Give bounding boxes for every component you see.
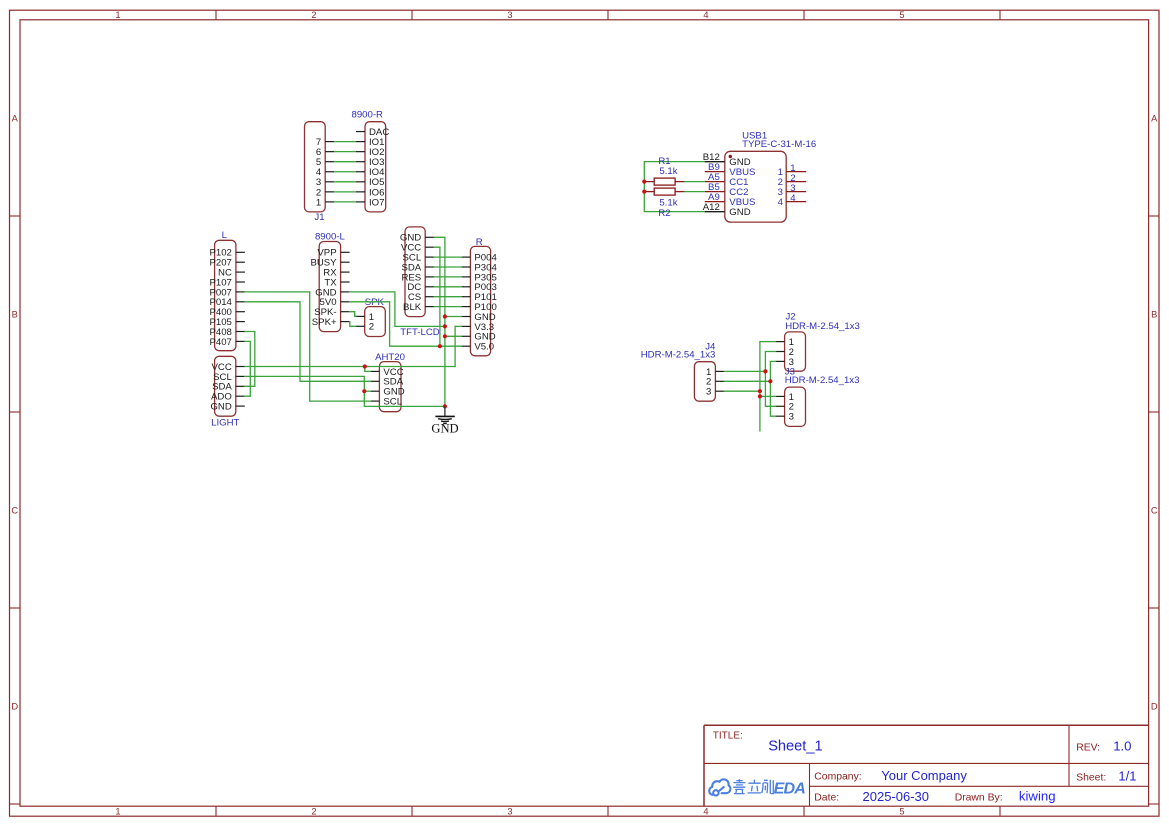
svg-text:Company:: Company: <box>814 772 861 783</box>
connector USB1 TYPE-C-31-M-16 <box>725 151 786 222</box>
wire P014 to AHT20 SDA <box>245 302 371 382</box>
svg-text:D: D <box>1151 701 1158 711</box>
title block outline <box>704 725 1149 806</box>
wire TFT DC to P003 <box>434 286 461 288</box>
svg-text:B: B <box>1151 309 1157 319</box>
junction GND row7 <box>443 314 447 318</box>
wire R GND pin9 <box>445 335 462 337</box>
svg-text:REV:: REV: <box>1076 742 1100 753</box>
wires J1 to 8900-R IO1-IO7 <box>334 142 356 202</box>
logo JLC cloud icon <box>709 779 730 795</box>
wire R2 to CC2 <box>684 191 704 193</box>
junction R2 left <box>642 190 646 194</box>
USB1 pin A12 GND <box>703 202 751 218</box>
svg-text:SPK+: SPK+ <box>312 317 337 328</box>
wire R1 to CC1 <box>684 181 704 183</box>
wire TFT SDA to P304 <box>434 266 461 268</box>
ground GND symbol <box>431 406 458 435</box>
svg-text:LIGHT: LIGHT <box>211 417 239 428</box>
wire AHT20 GND stub join <box>364 390 370 392</box>
svg-text:4: 4 <box>778 197 784 208</box>
svg-text:TYPE-C-31-M-16: TYPE-C-31-M-16 <box>742 139 816 150</box>
wire LIGHT SCL rail down to ground rail <box>245 376 445 406</box>
junction J4.3 on vertical A <box>758 389 762 393</box>
junction J4.1 on vertical B <box>763 369 767 373</box>
wire VCC rail LIGHT VCC to V3.3 vertical <box>245 366 455 368</box>
USB1 pin A5 CC1 <box>705 172 749 188</box>
wire J4 pin3 <box>724 390 760 392</box>
frame row letters right <box>1151 113 1158 711</box>
svg-text:EDA: EDA <box>774 780 806 797</box>
logo text 嘉立创 strokes <box>733 779 773 793</box>
svg-text:2: 2 <box>369 322 374 333</box>
wire SPK+ to SPK pin2 <box>350 322 356 327</box>
svg-text:C: C <box>1151 505 1158 515</box>
svg-text:HDR-M-2.54_1x3: HDR-M-2.54_1x3 <box>785 321 860 332</box>
svg-text:3: 3 <box>706 387 711 398</box>
svg-text:1: 1 <box>115 10 120 20</box>
wire A12 black segment <box>705 211 725 213</box>
wire B12 black segment <box>705 161 725 163</box>
wire TFT BLK to P100 <box>434 306 461 308</box>
USB1 pin B12 GND <box>703 152 751 168</box>
connector J3 <box>776 387 806 426</box>
svg-text:A: A <box>1151 113 1158 123</box>
junction GND row9 <box>443 334 447 338</box>
svg-text:Drawn By:: Drawn By: <box>955 793 1003 804</box>
wire R V3.3 to AHT20 VCC rail <box>455 326 461 366</box>
wire R GND pin7 <box>445 316 462 318</box>
frame row ticks right <box>1149 216 1159 804</box>
junction J4.2 on vertical C <box>768 379 772 383</box>
resistor R1 5.1k <box>644 178 684 185</box>
frame row letters left <box>11 113 18 711</box>
svg-text:4: 4 <box>790 193 796 204</box>
svg-text:GND: GND <box>729 207 750 218</box>
svg-text:B: B <box>12 309 18 319</box>
svg-text:5.1k: 5.1k <box>659 197 677 208</box>
wire USB GND loop vertical <box>644 162 705 212</box>
wire P007 to AHT20 SCL <box>245 292 371 401</box>
svg-text:HDR-M-2.54_1x3: HDR-M-2.54_1x3 <box>641 350 716 361</box>
svg-text:2: 2 <box>311 10 316 20</box>
USB1 pin-1 marker dot <box>729 155 732 158</box>
junction VCC rail <box>363 364 367 368</box>
connector TFT-LCD <box>400 227 434 317</box>
svg-text:4: 4 <box>703 10 708 20</box>
svg-text:Date:: Date: <box>814 793 839 804</box>
svg-text:2: 2 <box>311 806 316 816</box>
junction V3.3 row <box>443 324 447 328</box>
svg-text:8900-R: 8900-R <box>352 110 384 121</box>
wire 8900-L 5V0 to V5.0 row <box>350 302 462 346</box>
svg-text:D: D <box>11 701 18 711</box>
svg-text:5: 5 <box>899 806 904 816</box>
svg-text:J1: J1 <box>314 212 324 223</box>
svg-text:C: C <box>11 505 18 515</box>
connector 8900-R <box>356 122 389 212</box>
connector J2 <box>776 332 806 371</box>
USB1 pin A9 VBUS <box>705 192 756 208</box>
frame column numbers top <box>115 10 904 20</box>
connector J4 <box>694 362 724 402</box>
svg-text:3: 3 <box>507 806 512 816</box>
wire P408 to LIGHT SDA <box>245 332 255 387</box>
junction J3.1 on vertical A <box>758 394 762 398</box>
wire vertical A J2.1 J4.3 J3.1 <box>760 342 776 431</box>
wire 8900-L GND to GND vertical <box>350 292 445 327</box>
svg-text:2025-06-30: 2025-06-30 <box>863 789 930 804</box>
USB1 pin B9 VBUS <box>705 162 756 178</box>
frame row ticks left <box>10 216 21 804</box>
svg-text:1.0: 1.0 <box>1113 739 1131 754</box>
svg-text:V5.0: V5.0 <box>474 342 494 353</box>
wire J4 pin2 <box>724 380 770 382</box>
svg-text:P407: P407 <box>209 337 231 348</box>
svg-text:3: 3 <box>789 412 794 423</box>
connector L <box>209 240 244 350</box>
wire P407 to LIGHT ADO <box>245 341 251 396</box>
wire J4 pin1 <box>724 370 765 372</box>
svg-text:TITLE:: TITLE: <box>713 730 743 741</box>
connector AHT20 <box>370 362 404 412</box>
resistor R2 5.1k <box>644 188 684 195</box>
wire TFT RES to P305 <box>434 276 461 278</box>
wire J3 pin1 stub join <box>760 395 776 397</box>
svg-text:A: A <box>12 113 19 123</box>
wire SPK- to SPK pin1 <box>350 312 356 317</box>
connector LIGHT <box>210 356 244 416</box>
svg-text:R2: R2 <box>658 208 670 219</box>
svg-text:3: 3 <box>507 10 512 20</box>
frame column ticks bottom <box>216 806 1000 816</box>
svg-text:Sheet_1: Sheet_1 <box>768 739 822 755</box>
frame column ticks top <box>216 10 1000 20</box>
svg-text:L: L <box>222 230 228 241</box>
frame column numbers bottom <box>115 806 904 816</box>
wire TFT CS to P101 <box>434 296 461 298</box>
svg-text:TFT-LCD: TFT-LCD <box>400 327 440 338</box>
svg-text:kiwing: kiwing <box>1019 789 1056 804</box>
USB1 right pins 1-4 <box>778 163 807 208</box>
svg-text:IO7: IO7 <box>369 197 384 208</box>
connector 8900-L <box>310 242 349 332</box>
wire AHT20 VCC jog <box>365 367 371 372</box>
svg-text:5.1k: 5.1k <box>659 166 677 177</box>
connector SPK <box>356 307 386 337</box>
wire TFT VCC to V5.0 junction <box>434 247 440 346</box>
junction AHT20 GND <box>362 389 366 393</box>
svg-text:Sheet:: Sheet: <box>1076 772 1106 783</box>
svg-text:1: 1 <box>316 197 321 208</box>
connector J1 <box>305 122 335 212</box>
svg-text:BLK: BLK <box>403 302 422 313</box>
svg-text:GND: GND <box>210 402 231 413</box>
svg-text:Your Company: Your Company <box>881 768 967 783</box>
wire vertical B J2.2 J4.1 J3.2 <box>765 352 775 407</box>
svg-text:1: 1 <box>115 806 120 816</box>
wire vertical C J2.3 J4.2 J3.3 <box>770 361 775 416</box>
svg-text:HDR-M-2.54_1x3: HDR-M-2.54_1x3 <box>785 375 860 386</box>
wire TFT GND vertical to ground <box>434 237 445 406</box>
connector R <box>461 246 497 355</box>
junction V5.0 row <box>438 344 442 348</box>
svg-text:GND: GND <box>431 421 458 435</box>
svg-text:4: 4 <box>703 806 708 816</box>
wire TFT SCL to P004 <box>434 256 461 258</box>
svg-text:1/1: 1/1 <box>1118 769 1136 784</box>
junction ground rail <box>443 404 447 408</box>
svg-text:5: 5 <box>899 10 904 20</box>
junction R1 left <box>642 180 646 184</box>
USB1 pin B5 CC2 <box>705 182 749 198</box>
